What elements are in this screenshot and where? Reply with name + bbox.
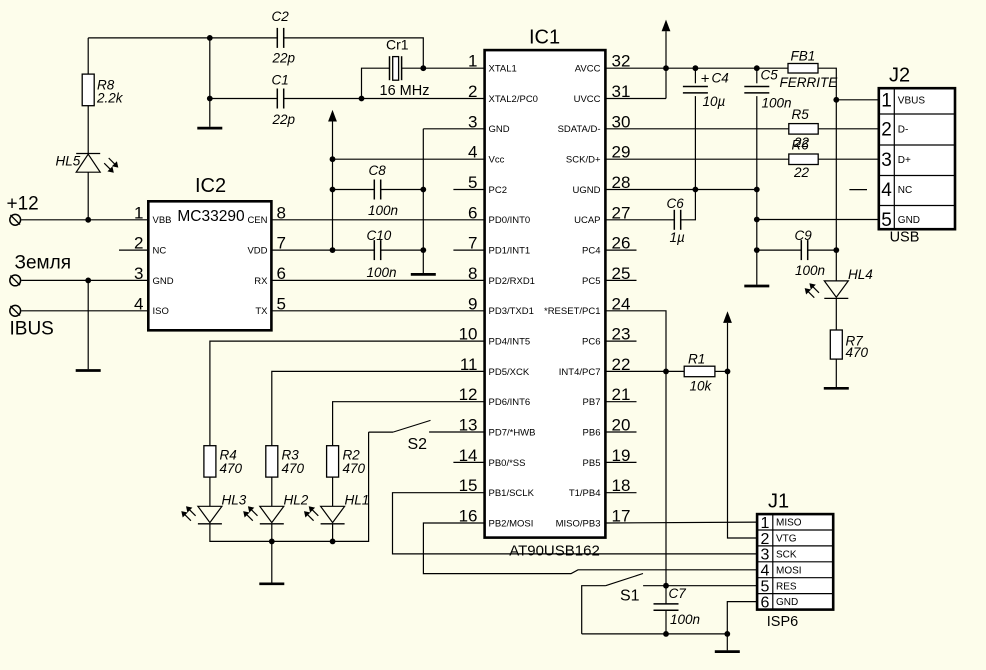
ground below C10 xyxy=(411,273,436,276)
wire IC1 PB1/SCLK to J1 SCK xyxy=(393,493,758,554)
J1 row divider xyxy=(757,529,833,531)
wire HL1 cathode drop xyxy=(332,524,334,542)
wire C9 left lead xyxy=(757,249,802,251)
wire top wire down to resistor R8 xyxy=(87,38,89,74)
ground below R7 xyxy=(824,387,849,390)
node C9 right junction xyxy=(833,247,839,253)
power arrow VCC (VTG) xyxy=(723,311,732,323)
wire ground column below C2/C1 xyxy=(209,38,211,127)
wire IC1 INT4/PC7 pin 22 xyxy=(605,370,666,372)
wire J2 GND to C5 column xyxy=(757,219,879,221)
terminal Земля xyxy=(10,275,21,286)
svg-text:PD4/INT5: PD4/INT5 xyxy=(489,337,531,348)
svg-text:6: 6 xyxy=(761,594,770,611)
svg-text:2: 2 xyxy=(761,531,770,548)
wire IC1 SDATA/D- to R5 xyxy=(605,128,788,130)
IC1 pin 23 stub wire xyxy=(605,340,636,342)
svg-text:470: 470 xyxy=(220,461,243,476)
wire VTG column to J1 pin 2 xyxy=(728,323,758,538)
svg-text:PC4: PC4 xyxy=(582,246,600,257)
svg-text:PB5: PB5 xyxy=(583,458,601,469)
svg-text:C1: C1 xyxy=(272,73,289,88)
J2 row divider xyxy=(879,144,955,146)
wire C9 right lead xyxy=(808,249,837,251)
wire LED cathode rail xyxy=(210,432,369,541)
wire VBUS column down to C9/HL4 xyxy=(835,100,837,281)
svg-text:C5: C5 xyxy=(761,68,779,83)
IC1 pin 7 stub wire xyxy=(453,249,484,251)
svg-text:100n: 100n xyxy=(795,263,825,278)
node C5 top junction xyxy=(754,65,760,71)
wire R1 left lead xyxy=(666,370,684,372)
svg-text:100n: 100n xyxy=(762,96,792,111)
node VBUS junction xyxy=(833,97,839,103)
svg-text:4: 4 xyxy=(881,180,892,201)
wire IC1 pin 10 to R4 xyxy=(210,341,485,446)
svg-text:IBUS: IBUS xyxy=(10,319,54,340)
wire HL4 to R7 xyxy=(835,298,837,330)
svg-text:FERRITE: FERRITE xyxy=(780,75,839,90)
wire IC1 RESET pin 24 to reset column xyxy=(605,311,666,586)
wire HL2 cathode drop xyxy=(271,524,273,542)
svg-text:100n: 100n xyxy=(367,265,397,280)
svg-text:MISO/PB3: MISO/PB3 xyxy=(556,518,601,529)
IC1 pin 20 stub wire xyxy=(605,431,636,433)
svg-text:1µ: 1µ xyxy=(670,230,686,245)
node S1/C7/RES junction xyxy=(663,583,669,589)
svg-text:PD5/XCK: PD5/XCK xyxy=(489,367,530,378)
svg-text:J1: J1 xyxy=(768,491,789,513)
svg-text:C10: C10 xyxy=(367,228,392,243)
wire R3 to HL2 xyxy=(271,477,273,506)
IC1 pin 19 stub wire xyxy=(605,461,636,463)
IC1 pin 5 stub wire xyxy=(453,189,484,191)
svg-text:XTAL1: XTAL1 xyxy=(489,64,517,75)
svg-text:1: 1 xyxy=(881,90,892,111)
svg-text:PD0/INT0: PD0/INT0 xyxy=(489,215,531,226)
svg-text:NC: NC xyxy=(153,246,167,257)
svg-text:GND: GND xyxy=(153,276,174,287)
wire R8-top to C2 left plate xyxy=(88,37,277,39)
wire R2 to HL1 xyxy=(332,477,334,506)
wire C7 top stem xyxy=(665,586,667,604)
svg-text:*RESET/PC1: *RESET/PC1 xyxy=(544,306,601,317)
svg-text:5: 5 xyxy=(881,210,892,231)
connector J2 body xyxy=(879,88,955,229)
HL3 emission arrows xyxy=(189,509,195,515)
svg-text:PB1/SCLK: PB1/SCLK xyxy=(489,488,535,499)
svg-text:FB1: FB1 xyxy=(791,49,816,64)
wire J1 GND route xyxy=(727,602,757,634)
svg-text:PC5: PC5 xyxy=(582,276,600,287)
wire ground stem bottom-right xyxy=(726,634,728,650)
wire +12 terminal to IC2 VBB xyxy=(21,219,148,221)
svg-text:PC2: PC2 xyxy=(489,185,507,196)
wire IC2 VDD to C10 left node xyxy=(271,249,374,251)
power arrow VCC (UVCC) xyxy=(662,20,671,32)
svg-text:R1: R1 xyxy=(688,352,705,367)
node C2/C1 ground column junctions xyxy=(207,35,213,41)
svg-text:MISO: MISO xyxy=(776,518,802,529)
node XTAL2 tap junction xyxy=(359,96,365,102)
wire RES node to J1 pin 5 xyxy=(666,585,757,587)
svg-text:HL2: HL2 xyxy=(284,493,309,508)
power arrow VCC (left) xyxy=(328,110,337,122)
svg-text:10µ: 10µ xyxy=(703,94,726,109)
wire C4 top stem xyxy=(694,68,696,83)
J2 pin 4 NC stub wire xyxy=(849,189,867,191)
node C9 left junction xyxy=(754,247,760,253)
svg-text:PB6: PB6 xyxy=(583,427,601,438)
node R1 right junction xyxy=(725,369,731,375)
wire IC1 pin 12 to R2 xyxy=(333,402,485,446)
svg-text:ISO: ISO xyxy=(153,306,169,317)
svg-text:HL1: HL1 xyxy=(345,493,370,508)
svg-text:100n: 100n xyxy=(368,203,398,218)
node +12 junction xyxy=(85,217,91,223)
wire S2 to IC1 pin 13 xyxy=(429,431,485,433)
node Vcc/pin4 junction xyxy=(330,156,336,162)
svg-text:C9: C9 xyxy=(795,228,813,243)
svg-text:R6: R6 xyxy=(792,138,810,153)
connector J1 body xyxy=(757,514,833,610)
svg-text:IC2: IC2 xyxy=(195,175,226,197)
svg-text:PD7/*HWB: PD7/*HWB xyxy=(489,427,536,438)
ground below LED rail xyxy=(259,582,284,585)
svg-text:PD6/INT6: PD6/INT6 xyxy=(489,397,531,408)
capacitor C1 xyxy=(276,89,278,109)
svg-text:PB0/*SS: PB0/*SS xyxy=(489,458,526,469)
svg-text:S2: S2 xyxy=(408,436,428,453)
svg-text:Cr1: Cr1 xyxy=(386,37,409,53)
J1 row divider xyxy=(757,545,833,547)
capacitor C8 xyxy=(373,180,375,200)
J2 pin-number column divider xyxy=(893,88,895,229)
svg-text:RES: RES xyxy=(776,581,797,592)
svg-text:VTG: VTG xyxy=(776,534,797,545)
capacitor C6 xyxy=(673,210,675,230)
HL4 emission arrows xyxy=(813,286,819,292)
IC1 pin 14 stub wire xyxy=(453,461,484,463)
svg-text:NC: NC xyxy=(898,185,912,196)
IC U1: IC1 AT90USB162 body xyxy=(485,50,606,537)
svg-text:VBUS: VBUS xyxy=(898,95,926,106)
svg-text:GND: GND xyxy=(898,215,920,226)
svg-text:5: 5 xyxy=(761,579,770,596)
wire FB1 to VBUS corner xyxy=(818,68,836,100)
svg-text:C7: C7 xyxy=(669,586,687,601)
ground below Земля wire xyxy=(76,369,101,372)
wire R8 bottom to HL5 cathode xyxy=(87,106,89,154)
wire C7 bottom stem xyxy=(665,610,667,634)
node C4 top junction xyxy=(693,65,699,71)
svg-text:HL5: HL5 xyxy=(56,153,81,168)
wire C1 right plate to IC1 pin 2 xyxy=(284,98,485,100)
HL1 emission arrows xyxy=(312,509,318,515)
svg-text:PB2/MOSI: PB2/MOSI xyxy=(489,518,534,529)
resistor R6 xyxy=(789,154,818,165)
wire C10 right lead xyxy=(381,249,424,251)
node R1 left junction xyxy=(663,369,669,375)
LED HL1 xyxy=(321,506,345,522)
svg-text:XTAL2/PC0: XTAL2/PC0 xyxy=(489,94,538,105)
wire VCC arrow column xyxy=(332,122,334,251)
LED HL3 xyxy=(198,506,222,522)
wire bottom ground rail xyxy=(582,633,728,635)
svg-text:C6: C6 xyxy=(667,196,685,211)
wire IC1 MISO/PB3 to J1 MISO xyxy=(605,521,757,524)
svg-text:AVCC: AVCC xyxy=(575,64,601,75)
capacitor C2 xyxy=(276,28,278,48)
svg-text:1: 1 xyxy=(761,515,770,532)
svg-text:INT4/PC7: INT4/PC7 xyxy=(559,367,601,378)
svg-text:UCAP: UCAP xyxy=(574,215,600,226)
wire ground column right of C8/C10 xyxy=(422,129,424,273)
wire C8 right lead xyxy=(381,189,424,191)
node C7 bottom junction xyxy=(663,631,669,637)
wire R6 to J2 D+ xyxy=(818,158,879,160)
svg-text:GND: GND xyxy=(489,124,510,135)
LED HL2 xyxy=(260,506,284,522)
wire VBUS to J2 pin 1 xyxy=(836,99,879,101)
IC U2: IC2 MC33290 body xyxy=(148,201,271,330)
node XTAL1 junction xyxy=(420,65,426,71)
svg-text:HL4: HL4 xyxy=(848,267,873,282)
ground below C5 column xyxy=(744,285,769,288)
wire Земля terminal to IC2 GND xyxy=(21,279,148,281)
svg-text:PB7: PB7 xyxy=(583,397,601,408)
wire IC2 TX to IC1 PD3/TXD1 xyxy=(271,310,484,312)
svg-text:470: 470 xyxy=(846,345,869,360)
svg-text:100n: 100n xyxy=(670,612,700,627)
svg-text:22p: 22p xyxy=(272,112,296,127)
svg-text:TX: TX xyxy=(255,306,268,317)
wire C4 bottom stem xyxy=(694,96,696,189)
J2 row divider xyxy=(879,175,955,177)
IC1 pin 21 stub wire xyxy=(605,401,636,403)
node C8 right junction xyxy=(420,187,426,193)
switch S2 fixed stub xyxy=(369,431,393,433)
switch S1 lever xyxy=(606,574,643,586)
svg-text:USB: USB xyxy=(890,229,920,245)
svg-text:UGND: UGND xyxy=(573,185,601,196)
svg-text:CEN: CEN xyxy=(247,215,267,226)
svg-text:3: 3 xyxy=(881,150,892,171)
J1 row divider xyxy=(757,577,833,579)
IC1 pin 18 stub wire xyxy=(605,492,636,494)
resistor R3 xyxy=(266,446,278,477)
svg-text:T1/PB4: T1/PB4 xyxy=(569,488,601,499)
svg-text:S1: S1 xyxy=(620,588,640,605)
svg-text:SDATA/D-: SDATA/D- xyxy=(558,124,601,135)
svg-text:GND: GND xyxy=(776,597,798,608)
wire C5 top stem xyxy=(756,68,758,83)
node C10 left junction xyxy=(330,247,336,253)
HL2 emission arrows xyxy=(251,509,257,515)
svg-text:C2: C2 xyxy=(272,9,290,24)
svg-text:R5: R5 xyxy=(792,107,810,122)
svg-text:J2: J2 xyxy=(889,65,910,87)
svg-text:2.2k: 2.2k xyxy=(96,91,124,106)
capacitor C9 xyxy=(800,240,802,260)
wire C2 right plate to XTAL1 node xyxy=(284,38,424,68)
ferrite bead FB1 xyxy=(788,64,818,74)
switch S2 lever xyxy=(393,420,431,432)
node bottom rail ground junction xyxy=(724,631,730,637)
svg-text:D-: D- xyxy=(898,124,909,135)
wire R5 to J2 D- xyxy=(818,128,879,130)
svg-text:Земля: Земля xyxy=(15,253,71,274)
J2 row divider xyxy=(879,113,955,115)
HL5 emission arrows xyxy=(109,158,115,164)
svg-text:3: 3 xyxy=(761,547,770,564)
ground bottom-right xyxy=(715,650,740,653)
svg-text:+: + xyxy=(701,71,710,88)
svg-text:IC1: IC1 xyxy=(529,27,560,49)
terminal IBUS xyxy=(10,305,21,316)
node AVCC/UVCC junction xyxy=(663,65,669,71)
wire IC1 UGND row xyxy=(605,189,756,191)
svg-text:Vcc: Vcc xyxy=(489,155,505,166)
wire IC1 UVCC pin 31 xyxy=(605,98,666,100)
wire ground drop from LED rail xyxy=(271,541,273,582)
capacitor C7 xyxy=(654,603,679,605)
J1 row divider xyxy=(757,561,833,563)
wire gnd-column to C1 left plate xyxy=(210,98,277,100)
svg-text:D+: D+ xyxy=(898,155,911,166)
resistor R5 xyxy=(789,124,818,135)
svg-text:MC33290: MC33290 xyxy=(177,208,245,225)
svg-text:22p: 22p xyxy=(272,51,296,66)
svg-text:UVCC: UVCC xyxy=(574,94,601,105)
wire crystal left to XTAL2 net xyxy=(362,68,390,98)
wire VCC column to IC1 Vcc pin 4 xyxy=(333,158,485,160)
svg-text:PC6: PC6 xyxy=(582,337,600,348)
LED HL5 xyxy=(76,153,100,155)
svg-text:SCK: SCK xyxy=(776,550,797,561)
IC2 pin 2 NC stub wire xyxy=(119,249,148,251)
ground below C1/C2 xyxy=(197,127,222,130)
wire IC1 AVCC row to FB1 xyxy=(605,67,788,69)
resistor R4 xyxy=(204,446,216,477)
wire C5 bottom column xyxy=(756,96,758,285)
svg-text:AT90USB162: AT90USB162 xyxy=(509,543,600,560)
svg-text:2: 2 xyxy=(881,119,892,140)
capacitor C5 xyxy=(744,86,769,88)
wire UVCC arrow column xyxy=(665,31,667,98)
node J2 GND tap junction xyxy=(754,217,760,223)
node rail junction at HL1 xyxy=(330,539,336,545)
capacitor C4 (polarized) xyxy=(683,86,708,88)
svg-text:RX: RX xyxy=(254,276,268,287)
svg-text:+12: +12 xyxy=(7,194,39,215)
wire R7 to ground xyxy=(835,359,837,387)
wire HL5 anode to +12 node xyxy=(87,172,89,220)
crystal Cr1 xyxy=(389,56,391,80)
switch S1 left contact xyxy=(582,586,606,634)
wire R1 right lead xyxy=(715,370,728,372)
wire IC2 CEN to IC1 PD0/INT0 xyxy=(271,219,484,221)
switch S1 right stub xyxy=(643,585,666,587)
svg-text:C8: C8 xyxy=(369,163,387,178)
resistor R7 xyxy=(830,330,842,359)
svg-text:16 MHz: 16 MHz xyxy=(380,83,430,99)
wire C8 left lead xyxy=(333,189,375,191)
node C8 left junction xyxy=(330,187,336,193)
svg-text:PD2/RXD1: PD2/RXD1 xyxy=(489,276,535,287)
svg-text:470: 470 xyxy=(282,461,305,476)
node C4 bottom junction xyxy=(693,187,699,193)
resistor R1 xyxy=(684,366,715,377)
resistor R2 xyxy=(327,446,339,477)
wire R4 to HL3 xyxy=(209,477,211,506)
svg-text:PD1/INT1: PD1/INT1 xyxy=(489,246,531,257)
wire IC1 UCAP to C6 xyxy=(605,219,674,221)
J1 pin-number column divider xyxy=(772,514,774,610)
wire ground drop from Земля wire xyxy=(87,280,89,369)
wire IC1 pin 11 to R3 xyxy=(272,371,485,445)
node C5 bottom junction xyxy=(754,187,760,193)
svg-text:VDD: VDD xyxy=(247,246,267,257)
svg-text:SCK/D+: SCK/D+ xyxy=(566,155,601,166)
svg-text:ISP6: ISP6 xyxy=(767,614,798,630)
svg-text:10k: 10k xyxy=(690,379,713,394)
IC1 pin 26 stub wire xyxy=(605,249,636,251)
svg-text:22: 22 xyxy=(793,165,810,180)
wire IBUS terminal to IC2 ISO xyxy=(21,310,148,312)
IC1 pin 25 stub wire xyxy=(605,279,636,281)
node C10 right junction xyxy=(420,247,426,253)
svg-text:VBB: VBB xyxy=(153,215,172,226)
svg-text:HL3: HL3 xyxy=(222,493,247,508)
node rail junction at HL2 xyxy=(269,539,275,545)
wire IC1 PB2/MOSI to J1 MOSI xyxy=(423,523,757,574)
capacitor C10 xyxy=(373,240,375,260)
terminal +12 xyxy=(10,214,21,225)
wire IC1 GND pin 3 to ground column xyxy=(423,128,484,130)
wire IC2 RX to IC1 PD2/RXD1 xyxy=(271,279,484,281)
svg-text:MOSI: MOSI xyxy=(776,565,802,576)
svg-text:470: 470 xyxy=(343,461,366,476)
svg-text:PD3/TXD1: PD3/TXD1 xyxy=(489,306,534,317)
node Земля ground junction xyxy=(85,278,91,284)
wire C6 right to C4 column xyxy=(681,190,696,220)
J2 row divider xyxy=(879,205,955,207)
LED HL4 xyxy=(824,281,848,297)
resistor R8 xyxy=(82,74,94,106)
wire crystal right to IC1 pin 1 xyxy=(402,67,485,69)
svg-text:4: 4 xyxy=(761,563,770,580)
J1 row divider xyxy=(757,593,833,595)
wire IC1 SCK/D+ to R6 xyxy=(605,158,788,160)
svg-text:C4: C4 xyxy=(712,71,729,86)
